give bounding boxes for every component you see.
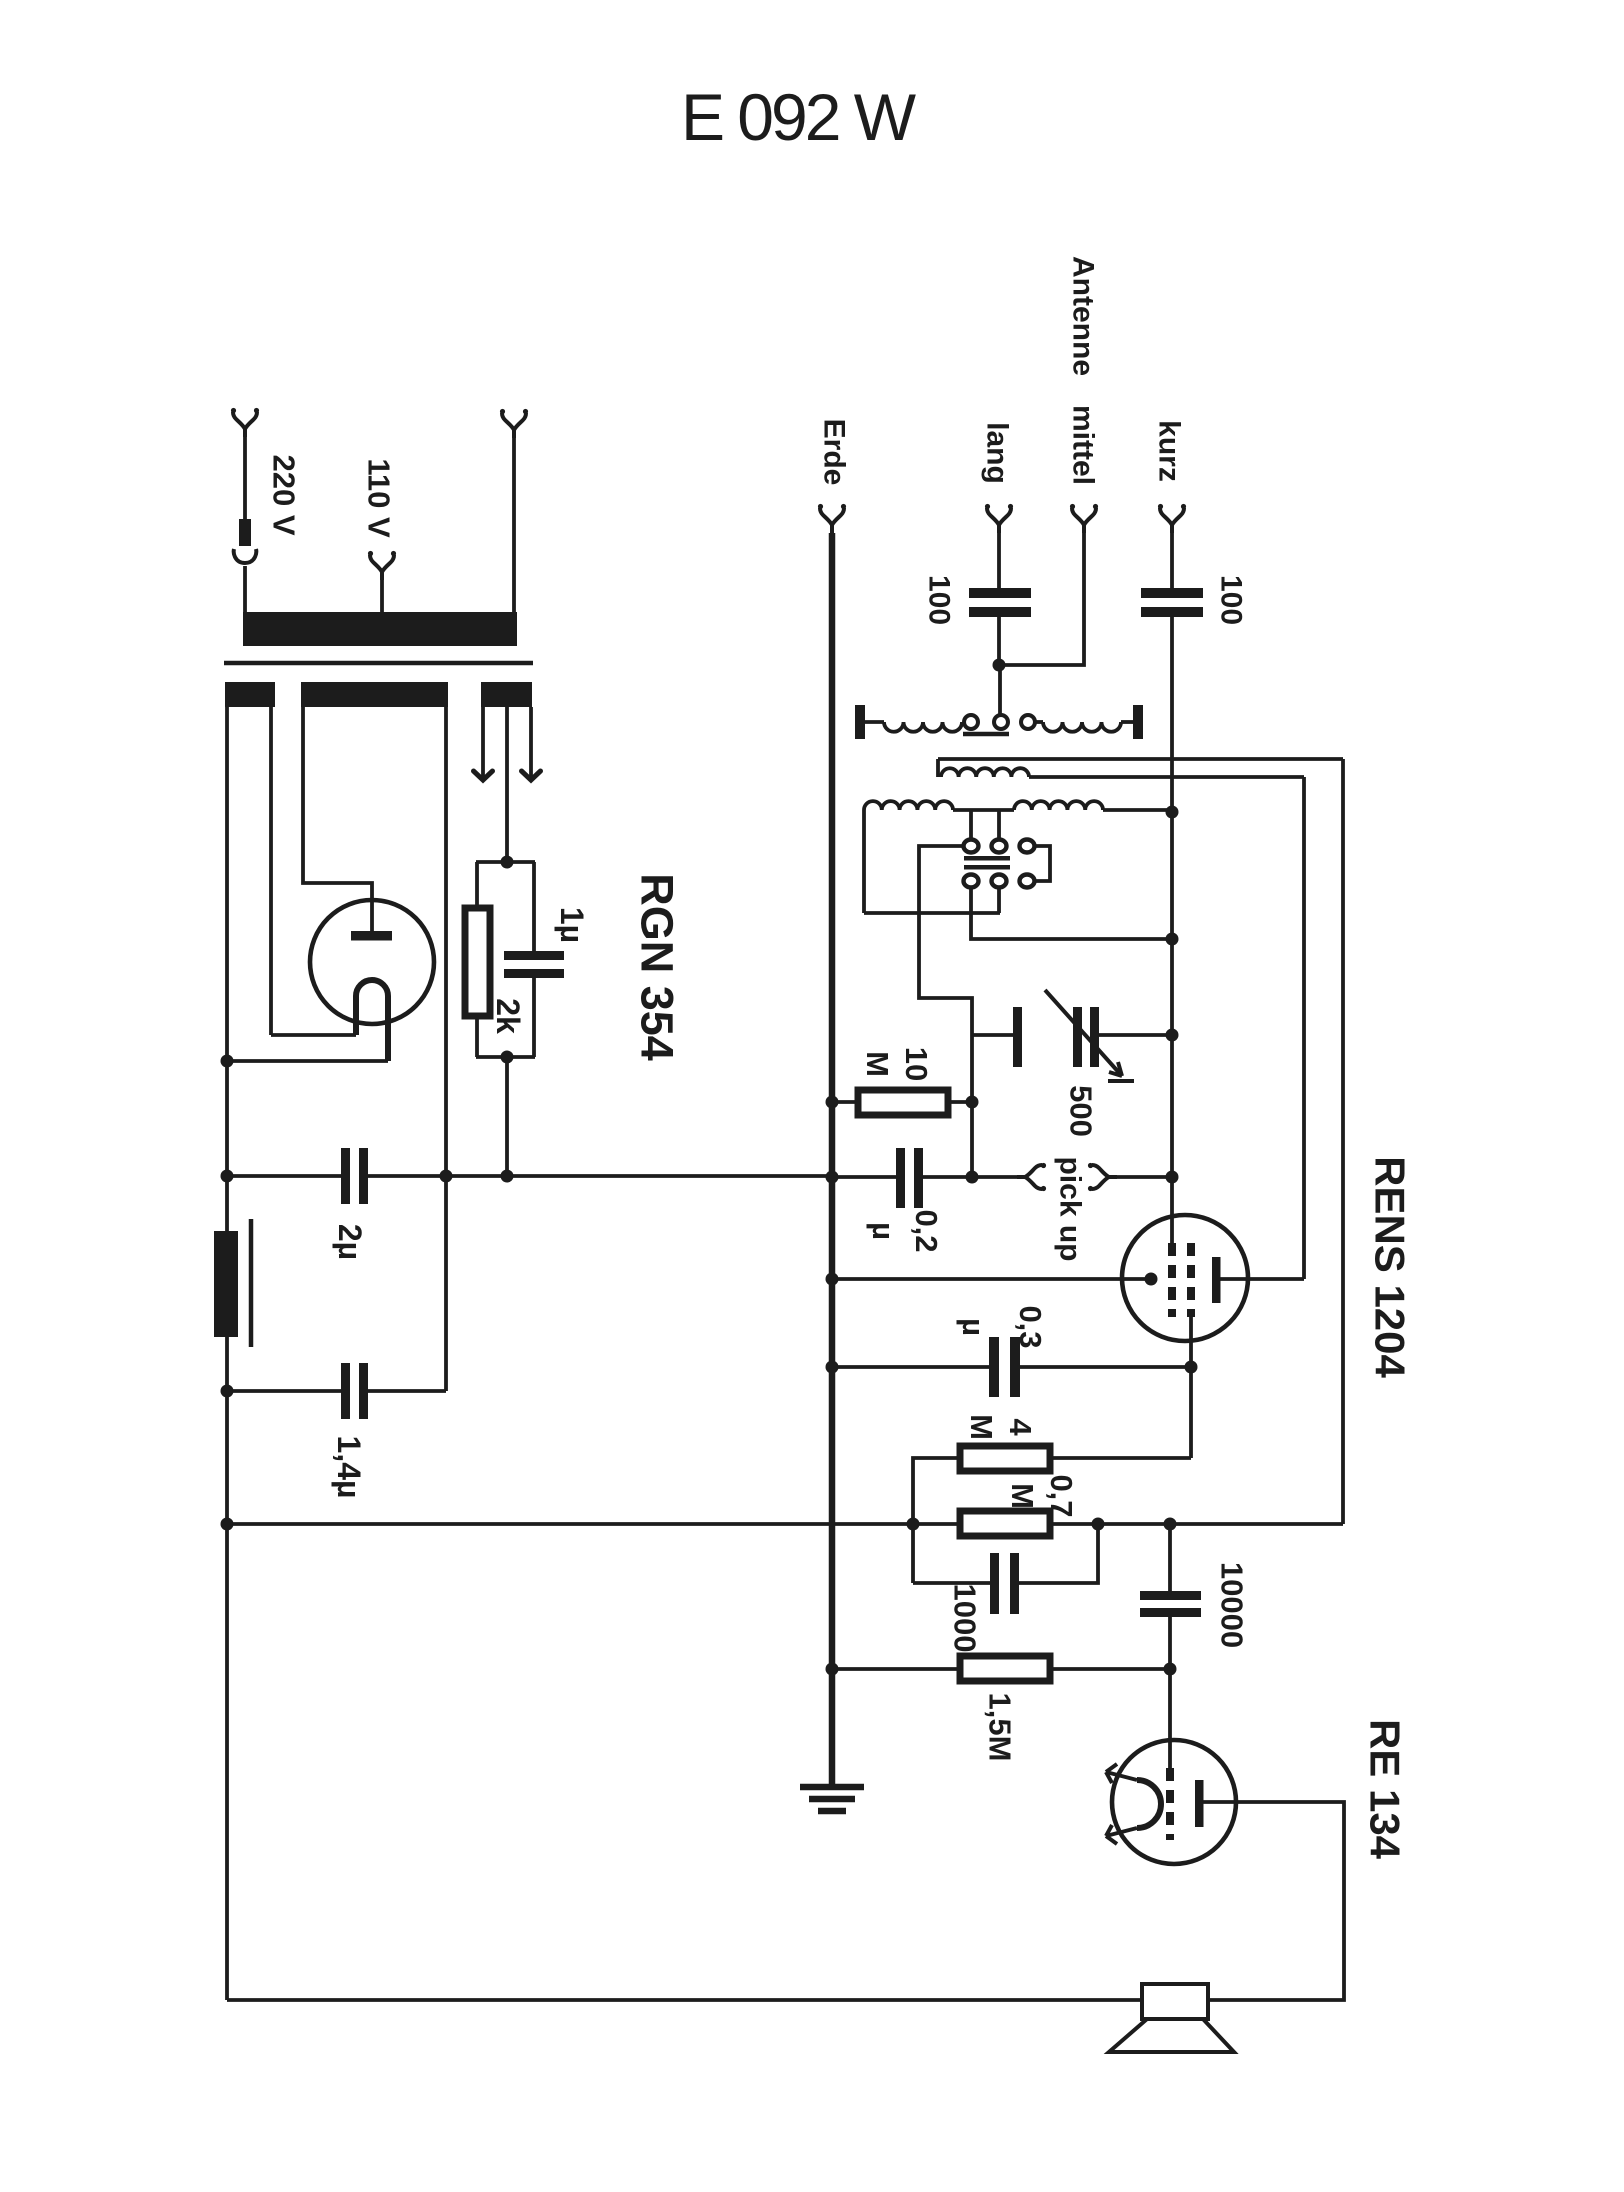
RE 134 grid (1166, 1768, 1174, 1840)
terminal kurz (1158, 504, 1186, 533)
wire left secondary right lead (269, 707, 273, 1035)
wire smoothing line right of 2u (368, 1174, 831, 1178)
wire smoothing line left (left rail to 2u) (227, 1174, 341, 1178)
wire tap down to antenna coil (998, 665, 1002, 715)
node junction 2k branch on line (501, 1170, 514, 1183)
coil grid winding left (864, 801, 953, 810)
wire line B feedback coil to anode riser (1029, 775, 1304, 779)
variable capacitor arrow (1045, 990, 1122, 1076)
transformer secondary winding middle (HV) (301, 682, 448, 707)
node junction rail-left HT line (221, 1518, 234, 1531)
variable capacitor 500 right plates (1073, 1007, 1082, 1067)
wire 0,7M right to outer riser (1050, 1522, 1343, 1526)
wire cathode line to rail (832, 1277, 1146, 1281)
wire left rail below choke (225, 1337, 229, 2000)
node junction left rail 2u line (221, 1170, 234, 1183)
wire 2k bottom to B+ line (505, 1057, 509, 1176)
svg-text:10000: 10000 (1215, 1562, 1250, 1648)
node junction rail 1,4u (221, 1385, 234, 1398)
wire 10M right lead (948, 1100, 972, 1104)
svg-text:100: 100 (1215, 575, 1248, 625)
wire junction to mittel terminal (999, 533, 1084, 665)
RE 134 heater lead bottom arrow (1106, 1828, 1137, 1836)
wire 100 bottom to tap junction (997, 617, 1001, 665)
wire tuning cap left lead (972, 1033, 1014, 1037)
svg-text:Erde: Erde (818, 419, 851, 486)
switch contact top c (1020, 840, 1035, 853)
RENS 1204 anode bar (1212, 1257, 1221, 1303)
wire 1u top lead (532, 862, 536, 951)
antenna coil right winding (1043, 722, 1121, 732)
wire coil tap a to switch (969, 810, 973, 840)
resistor 0,7M (960, 1511, 1050, 1536)
RENS 1204 cathode dot (1145, 1273, 1158, 1286)
wire HV left lead to rectifier anode (303, 707, 372, 931)
node junction grid-leak column pickup line (966, 1171, 979, 1184)
switch bridge bar lower (964, 865, 1010, 870)
capacitor 1u (504, 951, 564, 960)
wire kurz line down to RENS grid (1170, 617, 1174, 1243)
wire grid coil middle link (953, 808, 1014, 812)
wire right terminal to primary (512, 438, 516, 613)
choke field coil core bar (214, 1231, 238, 1337)
wire kurz to 100pF (1170, 533, 1174, 588)
loudspeaker cone (1109, 2019, 1234, 2052)
RE 134 filament arc (1137, 1780, 1161, 1828)
wire pickup line from rail (832, 1175, 897, 1179)
node junction 10M grid column (966, 1096, 979, 1109)
wire 0,2u to pickup (923, 1175, 1018, 1179)
wire coil tap b to switch (997, 810, 1001, 840)
wire 1000 bypass left (913, 1581, 991, 1585)
wire screen bypass 0,3u line (832, 1365, 990, 1369)
transformer core (224, 661, 533, 666)
wire heater lead arrow right (529, 707, 533, 779)
wire feedback coil left lead (936, 759, 940, 777)
wire fuse to transformer primary (243, 566, 247, 613)
svg-text:mittel: mittel (1067, 405, 1100, 485)
svg-text:1000: 1000 (948, 1584, 983, 1653)
svg-text:pick up: pick up (1054, 1156, 1087, 1261)
wire 4M right lead (1050, 1456, 1191, 1460)
node junction rail pickup line (826, 1171, 839, 1184)
svg-text:2µ: 2µ (332, 1224, 368, 1260)
wire 1,5M right lead (1050, 1667, 1170, 1671)
resistor 2k (465, 908, 490, 1016)
node junction HV lead on line (440, 1170, 453, 1183)
antenna coil tap ring 3 (1021, 715, 1035, 729)
wire 10000 top lead (1168, 1524, 1172, 1592)
wire 1u bottom lead (532, 978, 536, 1057)
wire outer riser to HT (1341, 759, 1345, 1524)
node junction grid coil kurz (1166, 806, 1179, 819)
wire RE anode to output loop (1203, 1802, 1344, 2000)
switch bridge bar upper (964, 856, 1010, 861)
antenna coil tap ring 2 (994, 715, 1008, 729)
node junction tuning cap kurz (1166, 1029, 1179, 1042)
node junction heater centre 2k top (501, 856, 514, 869)
capacitor 100 (lang) (969, 588, 1031, 598)
svg-text:RGN 354: RGN 354 (632, 873, 683, 1061)
antenna coil left winding (884, 722, 962, 732)
wire 220V terminal to fuse (243, 437, 247, 519)
resistor 10M (858, 1090, 948, 1115)
svg-text:RE 134: RE 134 (1362, 1719, 1409, 1860)
wire 2k/1u bottom bus (476, 1055, 535, 1059)
wire 10000 bottom lead to RE grid (1168, 1617, 1172, 1768)
svg-text:220 V: 220 V (267, 454, 302, 535)
tube RENS 1204 envelope (1122, 1215, 1248, 1341)
wire bottom contact a to kurz line (971, 888, 1172, 939)
wire HT return line y1524 (227, 1522, 960, 1526)
terminal lang (985, 504, 1013, 533)
terminal mains right (500, 409, 528, 438)
svg-text:lang: lang (981, 422, 1014, 484)
capacitor 0,2u (896, 1148, 905, 1208)
node junction screen 0,3u (1185, 1361, 1198, 1374)
node junction 1000 branch (1092, 1518, 1105, 1531)
terminal Erde (818, 504, 846, 533)
switch contact top b (992, 840, 1007, 853)
wire 1,4u line right (368, 1389, 446, 1393)
transformer secondary winding left (rectifier filament) (225, 682, 275, 707)
antenna coil tap ring 1 (964, 715, 978, 729)
antenna coil left end bar (855, 705, 865, 739)
node junction 10000 branch (1164, 1518, 1177, 1531)
switch contact bottom b (992, 875, 1007, 888)
RE 134 anode bar (1195, 1780, 1204, 1827)
RENS 1204 control grid (1168, 1243, 1176, 1317)
node junction 4M column HT line (907, 1518, 920, 1531)
wire anode riser inner (1302, 777, 1306, 1279)
node junction grid column 1,5M (1164, 1663, 1177, 1676)
resistor 1,5M (960, 1656, 1050, 1681)
capacitor 10000 (1140, 1591, 1201, 1600)
wire 2k top lead (475, 862, 479, 908)
terminal mittel (1070, 504, 1098, 533)
transformer secondary winding right (output heater) (481, 682, 532, 707)
wire RENS anode to riser (1220, 1277, 1304, 1281)
coil feedback winding (941, 768, 1029, 777)
node junction 2k bottom (501, 1051, 514, 1064)
capacitor 0,3u (989, 1337, 999, 1397)
node junction return kurz (1166, 933, 1179, 946)
wire 1000 bypass right (1019, 1524, 1098, 1583)
capacitor 1,4u (341, 1363, 350, 1419)
loudspeaker box (1142, 1984, 1208, 2019)
svg-text:2k: 2k (490, 998, 526, 1034)
wire 2k/1u top bus (476, 860, 535, 864)
node junction rail 1,5M (826, 1663, 839, 1676)
variable capacitor 500 left plate (1013, 1007, 1022, 1067)
svg-text:Antenne: Antenne (1067, 256, 1100, 376)
wire tuning cap right lead (1099, 1033, 1172, 1037)
node junction rail cathode (826, 1273, 839, 1286)
svg-text:110 V: 110 V (362, 458, 397, 538)
svg-text:RENS 1204: RENS 1204 (1367, 1156, 1414, 1378)
switch contact bottom c (1020, 875, 1035, 888)
svg-text:1,5M: 1,5M (983, 1693, 1018, 1762)
node junction lang mittel (993, 659, 1006, 672)
capacitor 2u (341, 1148, 350, 1204)
capacitor 100 (kurz) (1141, 588, 1203, 598)
capacitor 1000 (990, 1553, 999, 1614)
terminal 110V tap (368, 551, 396, 580)
resistor 4M (960, 1446, 1050, 1471)
svg-text:E 092 W: E 092 W (681, 80, 917, 154)
svg-text:100: 100 (923, 575, 956, 625)
switch contact top a (964, 840, 979, 853)
wire heater centre lead down to 2k top (505, 707, 509, 862)
wire 2k bottom lead (475, 1016, 479, 1057)
wire 0,3u to screen lead (1020, 1365, 1191, 1369)
wire antenna coil right stub (1121, 720, 1133, 724)
RENS 1204 screen grid (1187, 1243, 1195, 1317)
wire HV right lead down (444, 707, 448, 1391)
svg-text:500: 500 (1064, 1085, 1099, 1137)
node junction pickup kurz (1166, 1171, 1179, 1184)
wire Erde ground rail (829, 533, 836, 1786)
terminal 220V plug (231, 408, 259, 437)
node junction rail 10M (826, 1096, 839, 1109)
wire anode feed line A (938, 757, 1343, 761)
wire lang to 100pF (997, 533, 1001, 588)
coil grid winding right (1014, 801, 1103, 810)
svg-text:kurz: kurz (1153, 420, 1186, 482)
wire antenna coil left stub (865, 720, 884, 724)
ground symbol (800, 1787, 864, 1811)
antenna coil tap underline (963, 732, 1009, 737)
tube RE 134 envelope (1112, 1740, 1236, 1864)
svg-text:1,4µ: 1,4µ (331, 1436, 367, 1499)
RGN 354 anode bar (351, 931, 392, 941)
svg-text:1µ: 1µ (554, 907, 590, 943)
RGN 354 filament dome (356, 980, 388, 1061)
wire 4M left lead (913, 1458, 960, 1583)
switch contact bottom a (964, 875, 979, 888)
antenna coil right end bar (1133, 705, 1143, 739)
wire switch return bus (864, 911, 1000, 915)
wire top-left contact to grid leak column (919, 846, 972, 1177)
wire 1,5M line from rail (832, 1667, 960, 1671)
wire grid coil to kurz line (1103, 808, 1172, 812)
wire pickup right to kurz line (1117, 1175, 1172, 1179)
wire screen grid down (1189, 1317, 1193, 1458)
terminal pick up left (1017, 1163, 1046, 1191)
wire 10M left lead (832, 1100, 858, 1104)
wire bottom return rail (227, 1998, 1142, 2002)
wire bottom contact b lead (997, 888, 1001, 913)
wire switch right U bridge (1035, 846, 1050, 881)
node junction left rail filament (221, 1055, 234, 1068)
wire 1,4u line left (227, 1389, 341, 1393)
fuse holder socket (234, 549, 257, 563)
transformer primary winding bar (243, 612, 517, 646)
wire filament right leg to left rail (227, 1059, 388, 1063)
fuse (239, 519, 251, 546)
terminal pick up right (1088, 1163, 1117, 1191)
wire grid coil left end down (862, 810, 866, 913)
RE 134 heater lead top arrow (1106, 1772, 1137, 1780)
node junction rail 0,3u (826, 1361, 839, 1374)
wire antenna coil stub ring3 (1035, 720, 1043, 724)
wire 110V terminal to primary (380, 580, 384, 613)
wire filament left leg to winding (271, 1033, 356, 1037)
wire left rail (B-) from left secondary down to bottom (225, 707, 229, 1231)
wire heater lead arrow left (481, 707, 485, 779)
tube RGN 354 envelope (310, 900, 434, 1024)
choke field coil side line (249, 1219, 254, 1347)
